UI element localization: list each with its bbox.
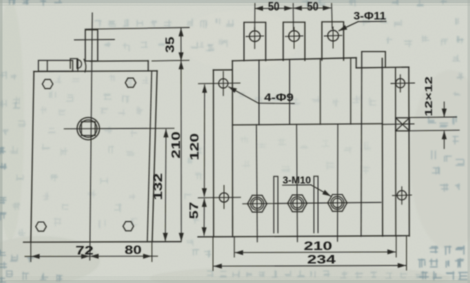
shaft square center line xyxy=(382,123,414,126)
mounting hole bottom-left xyxy=(219,193,228,202)
mounting hole top-left xyxy=(219,79,228,88)
right view divider 2 xyxy=(289,60,291,125)
dim 57 dimension line xyxy=(203,199,205,235)
left view handle cross tick xyxy=(74,39,114,41)
terminal tab 2 xyxy=(283,22,305,60)
svg-text:3-M10: 3-M10 xyxy=(283,175,312,187)
dim 210 dimension line xyxy=(180,61,182,241)
right view bottom edge xyxy=(198,236,409,237)
svg-text:210: 210 xyxy=(171,132,183,159)
dim 210 dimension line xyxy=(235,251,395,254)
svg-text:50: 50 xyxy=(268,2,280,14)
dim 210 top extension line xyxy=(152,59,189,62)
right view left flange top xyxy=(213,69,232,71)
left view hex bolt top-left xyxy=(42,79,53,88)
left view hex bolt top-right xyxy=(125,78,136,87)
barrier slot 2 xyxy=(314,176,318,233)
right view divider 4 xyxy=(350,58,352,124)
mounting hole top-right xyxy=(396,79,405,88)
svg-text:210: 210 xyxy=(304,239,333,253)
left view nameplate divider xyxy=(46,61,48,72)
right view top step xyxy=(355,58,357,68)
svg-text:12×12: 12×12 xyxy=(423,76,435,116)
tab 3 hole xyxy=(328,30,339,41)
left view hex bolt bottom-left xyxy=(36,222,47,231)
svg-text:50: 50 xyxy=(307,1,319,13)
svg-text:120: 120 xyxy=(189,133,201,160)
right view divider 1 xyxy=(258,60,260,124)
dim 35 vertical dimension line xyxy=(180,28,182,60)
page edge shading xyxy=(0,0,470,3)
left view shaft inner circle xyxy=(80,120,97,137)
shaft square bottom extension xyxy=(410,129,460,132)
tab 1 hole xyxy=(249,31,260,42)
dim 234 right extension xyxy=(406,236,408,270)
dim 234 dimension line xyxy=(214,265,406,268)
dim 35 top extension line xyxy=(85,28,189,30)
pole center line 3 xyxy=(337,124,339,241)
left view handle xyxy=(85,30,97,61)
left view escutcheon top edge xyxy=(90,60,148,62)
dim 72 dimension line xyxy=(32,255,90,257)
left view body right inner edge xyxy=(147,71,151,242)
left view body left edge xyxy=(31,72,34,242)
pole center line 2 xyxy=(296,125,299,242)
shaft square 12x12 box xyxy=(396,118,410,131)
svg-text:35: 35 xyxy=(165,36,177,53)
dim 12 upper arrow xyxy=(443,102,445,117)
right view body left edge xyxy=(231,61,233,237)
mounting hole bottom-right xyxy=(397,191,406,200)
dim line overshoot left xyxy=(25,255,32,257)
shaft square diagonals xyxy=(396,118,410,131)
dim 72-80 right extension xyxy=(151,242,153,262)
right view divider 3 xyxy=(319,59,321,124)
dim 50 second dimension line xyxy=(294,7,331,9)
label 3-phi11 leader xyxy=(340,21,386,30)
left view hex bolt bottom-right xyxy=(123,222,134,231)
dim 132 dimension line xyxy=(164,129,167,241)
nut row center line xyxy=(243,202,381,203)
terminal tab 1 xyxy=(244,22,266,60)
svg-text:80: 80 xyxy=(125,243,142,257)
left view body top edge xyxy=(34,70,157,73)
svg-text:132: 132 xyxy=(153,173,165,200)
tab 2 hole xyxy=(289,31,300,42)
right view interior horizontal line xyxy=(233,124,383,125)
svg-text:234: 234 xyxy=(307,253,336,267)
left view nameplate xyxy=(38,60,72,71)
svg-text:4-Φ9: 4-Φ9 xyxy=(264,92,294,104)
right view step top edge xyxy=(356,66,409,69)
right view main top edge xyxy=(232,58,356,61)
right view right flange edge xyxy=(408,67,411,236)
svg-text:72: 72 xyxy=(76,243,94,257)
shaft square top extension xyxy=(410,116,457,119)
left view escutcheon right step xyxy=(147,61,149,71)
left view latch detail xyxy=(70,59,77,69)
svg-text:57: 57 xyxy=(189,202,201,219)
left view body bottom edge xyxy=(24,241,182,244)
barrier slot 1 xyxy=(274,176,278,233)
right view left flange edge xyxy=(212,70,214,237)
left view shaft square hole xyxy=(81,122,95,136)
terminal nut 1 xyxy=(248,195,267,212)
label 4-phi9 leader xyxy=(259,102,295,104)
dim 210 left extension xyxy=(233,237,235,257)
dim line overshoot right xyxy=(151,255,157,257)
dim 50 extension line tab3 xyxy=(331,4,334,29)
terminal nut 3 xyxy=(328,195,347,212)
dim 72-80 left extension xyxy=(30,242,32,261)
terminal nut 2 xyxy=(288,195,307,212)
dim 210 right extension xyxy=(395,236,397,257)
left view shaft horizontal center line xyxy=(64,127,174,130)
left view vertical center line xyxy=(90,13,93,260)
dim 234 left extension xyxy=(212,237,214,271)
dim 50 first dimension line xyxy=(255,7,292,9)
dim 12 lower arrow xyxy=(443,131,445,148)
dim 50 extension line tab1 xyxy=(254,4,256,30)
svg-text:3-Φ11: 3-Φ11 xyxy=(354,10,387,22)
terminal tab 3 xyxy=(322,22,344,60)
left view body right outer edge xyxy=(152,71,157,242)
right view raised block xyxy=(362,52,386,68)
right view right flange inner line xyxy=(395,68,397,236)
left view shaft outer circle xyxy=(77,117,99,139)
dim 50 extension line tab2 xyxy=(292,4,294,30)
dim 120 dimension line xyxy=(203,85,205,197)
right view body right edge xyxy=(381,58,383,236)
dim 80 dimension line xyxy=(91,255,152,257)
right view raised block edge extended xyxy=(360,68,363,236)
label 3-M10 leader xyxy=(283,184,311,186)
pole center line 1 xyxy=(255,125,258,242)
